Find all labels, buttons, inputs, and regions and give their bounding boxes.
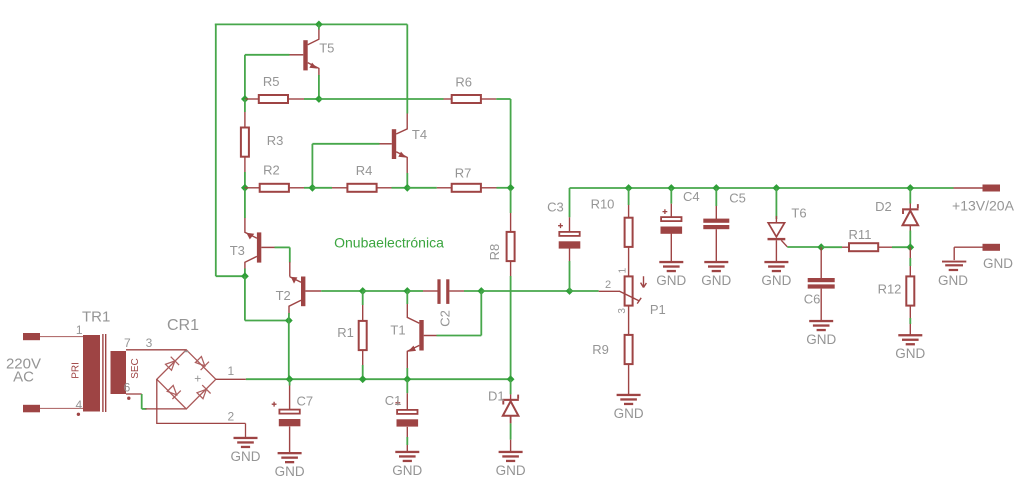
capacitor C5 bottom pin [715,229,717,261]
wire T5 base net vertical [244,55,246,99]
wire T1 collector net [406,291,408,304]
resistor R6 right pin [481,98,496,100]
capacitor C1 bottom pin [406,427,408,437]
svg-text:R8: R8 [487,244,502,261]
capacitor C5 [703,219,729,230]
wire R6 to corner [496,98,510,100]
svg-text:T6: T6 [791,205,806,220]
junction T1 collector / C2 [403,287,411,295]
wire T6 gate net [787,246,821,248]
resistor R1 bottom pin [362,350,364,365]
svg-text:GND: GND [392,463,422,478]
wire TR1 pin7 to bridge [126,349,186,351]
resistor R7 left pin [437,187,452,189]
capacitor C3 bottom pin [569,248,571,261]
resistor R3 [241,128,249,157]
junction top rail / T5 collector [315,21,323,29]
junction T2 collector node [285,317,293,325]
svg-text:C4: C4 [683,189,700,204]
wire T4 base vertical [311,144,313,188]
capacitor C3 top pin [569,217,571,231]
junction rail / C5 [712,184,720,192]
wire R8 top net [510,190,512,214]
resistor R11 right pin [878,246,892,248]
capacitor C6 top pin [820,247,822,278]
ground under D1 [499,451,523,462]
resistor R3 bottom pin [244,157,246,172]
svg-text:6: 6 [124,381,131,395]
transistor T2 [289,277,321,314]
resistor R6 [452,95,481,103]
bridge rectifier CR1 diamond [157,350,216,409]
ground under R9 [617,394,641,405]
wire T2 collector stub [288,313,290,321]
wire node to R4 [312,187,332,189]
bridge CR1 diode lower-left [167,385,181,399]
ground under CR1 [234,437,258,448]
ground under R12 [898,334,922,345]
wire T3 node down [244,276,246,320]
resistor R5 right pin [288,98,304,100]
junction rail / C4 [667,184,675,192]
resistor R12 top pin 2 [909,266,911,276]
wire R3 to R2 node [244,172,246,188]
capacitor C6 [808,278,835,289]
wire bottom rail [246,378,511,380]
svg-text:2: 2 [228,410,235,424]
wire to bridge bottom [142,408,147,410]
svg-text:CR1: CR1 [167,317,199,334]
resistor R10 [625,218,633,247]
junction bottom rail / R1 [359,375,367,383]
svg-text:T3: T3 [230,243,245,258]
bridge CR1 diode upper-right [195,357,209,371]
wire to T3 collector node [216,275,245,277]
svg-text:SEC: SEC [130,358,141,379]
ground under C7 [278,452,302,463]
svg-text:GND: GND [231,449,261,464]
ground under C4 [659,261,683,272]
resistor R10 top pin [628,205,630,218]
junction D2 / R11 / R12 [906,243,914,251]
wire TR1 pin6 [126,393,142,395]
wire C5 top net [715,188,717,206]
wire R5 to T5 emitter node [304,98,319,100]
svg-text:D1: D1 [488,389,505,404]
svg-text:GND: GND [496,463,526,478]
svg-text:AC: AC [13,369,34,386]
resistor R8 top pin [510,213,512,232]
transformer TR1 secondary phase dot [127,397,130,400]
diode D1 cathode pin [510,394,512,400]
wire T5 base net [245,54,290,56]
wire R5 node down [244,99,246,112]
junction node R5 left [241,95,249,103]
wire T3 base net [275,246,290,248]
wire T2 collector to bottom rail [288,321,290,380]
transistor T2 emitter pin [289,262,291,277]
wire T4 base net [312,143,379,145]
svg-text:C7: C7 [296,394,313,409]
wire R2 node to T3 emitter [244,190,246,219]
wire bridge pin 2 horizontal [156,422,245,424]
svg-text:PRI: PRI [71,362,82,379]
ground right [942,261,966,272]
svg-text:GND: GND [761,273,791,288]
transformer TR1 primary winding [83,335,100,412]
zener diode D2 [902,204,919,225]
resistor R4 right pin [377,187,392,189]
junction gate net / C6 [817,243,825,251]
wire R10 top net [628,188,630,205]
junction bottom rail / R8 / D1 [507,375,515,383]
svg-text:C3: C3 [547,199,564,214]
capacitor C7 top pin [289,386,291,410]
resistor R7 right pin [481,187,497,189]
junction C2 / T1 base [477,287,485,295]
wire rail to C3 [569,188,571,217]
wire R12 bottom net [909,318,911,324]
ground under C1 [395,451,419,462]
wire rail to D2 [909,188,911,204]
capacitor C4 bottom pin [670,234,672,262]
wire output net to P1 wiper [570,290,599,292]
transistor T5 [290,29,319,76]
transformer TR1 core [103,334,106,412]
svg-text:R6: R6 [455,74,472,89]
wire node to R7 [407,187,437,189]
wire D2 to R12 node [909,231,911,245]
wire pad to TR1 pin 1 [40,336,83,338]
svg-text:GND: GND [275,464,305,479]
svg-text:1: 1 [76,323,83,337]
capacitor C4 top pin [670,204,672,217]
resistor R5 left pin [245,98,259,100]
thyristor T6 anode pin [775,216,777,223]
capacitor C5 top pin [715,206,717,219]
wire D1 bottom net [510,423,512,439]
wire T6 anode net [775,188,777,219]
wire bridge output pin 1 [216,378,246,380]
svg-text:R2: R2 [263,163,280,178]
resistor R12 top pin [909,247,911,258]
transistor T1 [407,304,436,369]
capacitor C1 ground pin [406,445,408,451]
svg-text:C2: C2 [438,310,453,327]
svg-text:R1: R1 [337,325,354,340]
svg-text:T1: T1 [390,322,405,337]
wire R4 to T4 emitter node [392,187,408,189]
resistor R5 [259,95,288,103]
wire R8 to bottom rail [510,276,512,379]
resistor R9 [625,335,633,364]
junction bottom rail / C7 [286,375,294,383]
transformer TR1 primary phase dot [77,413,80,416]
wire bridge pin 2 down [156,379,158,423]
wire R7 to R8 node [497,187,511,189]
zener diode D1 [502,395,519,416]
capacitor C1 top pin [406,393,408,409]
diode D2 anode pin [909,226,911,231]
svg-text:C6: C6 [804,291,821,306]
wire C1 top net [406,379,408,393]
diode D2 cathode pin [909,204,911,209]
wire T5 collector stub [318,24,320,29]
wire C4 top net [670,188,672,204]
wire left vertical [215,24,217,276]
svg-text:C5: C5 [729,190,746,205]
resistor R6 left pin [444,98,452,100]
bridge CR1 diode lower-right [197,385,211,399]
svg-text:3: 3 [146,336,153,350]
svg-text:GND: GND [614,406,644,421]
resistor R1 [359,321,367,350]
junction rail / D2 [906,184,914,192]
junction T3 collector node [241,272,249,280]
wire C7 top net [289,379,291,385]
terminal pad +13V [983,185,1001,192]
capacitor C4 (polarized) [661,209,683,234]
capacitor C1 (polarized) [395,400,418,426]
wire T1 base net [437,335,482,337]
wire gate net to R11 [821,246,842,248]
wire R12 top net [909,258,911,266]
wire C2 to T1 base node [464,290,481,292]
terminal pad 220V line [23,333,40,340]
wire R1 top net [362,291,364,305]
svg-text:GND: GND [656,273,686,288]
terminal pad 220V neutral [23,405,40,413]
thyristor T6 cathode pin [775,240,777,261]
junction C3 bottom / output net [566,287,574,295]
ground under C6 [809,320,833,331]
wire rail to +13V pad [954,187,983,189]
capacitor C7 (polarized) [272,402,301,427]
wire GND pad [954,246,982,248]
wire pad to TR1 pin 4 [40,407,83,409]
resistor R2 right pin [289,187,304,189]
thyristor T6 [768,223,788,247]
wire T1 base vertical to C2 node [480,291,482,336]
wire output net [363,290,408,292]
resistor R1 top pin [362,305,364,321]
capacitor C7 bottom pin [289,427,291,453]
wire bridge AC bottom pin [146,408,187,410]
transistor T4 [380,112,408,173]
transformer TR1 secondary winding [111,351,127,394]
wire T3 base to T2 emitter [289,247,291,262]
wire R5 node to R6 [319,98,444,100]
wire GND pad down [953,247,955,260]
resistor R12 [906,276,914,305]
potentiometer P1 [620,276,647,305]
wire top rail to T4 collector [406,24,408,113]
svg-text:GND: GND [895,346,925,361]
svg-text:R11: R11 [849,227,872,242]
svg-text:R7: R7 [455,165,472,180]
resistor R11 left pin [842,246,849,248]
wire bridge pin 2 to ground [245,423,247,437]
resistor R11 [849,243,878,251]
junction R2 / R4 / T4 base [309,184,317,192]
potentiometer P1 wiper pin [599,290,620,292]
svg-text:4: 4 [75,398,82,412]
junction T5 emitter / R5 / R6 net [315,95,323,103]
resistor R8 bottom pin [510,261,512,276]
wire R6 down to R7 node [510,99,512,188]
capacitor C2 [437,279,449,304]
svg-text:T2: T2 [276,288,291,303]
svg-text:GND: GND [983,256,1013,271]
svg-text:R9: R9 [592,342,609,357]
resistor R7 [452,184,481,192]
junction R2 left node [241,184,249,192]
wire R11 to D2 node [892,246,910,248]
resistor R9 bottom pin [628,364,630,394]
capacitor C2 left pin [423,290,438,292]
svg-text:T5: T5 [319,41,334,56]
svg-text:+13V/20A: +13V/20A [952,198,1015,214]
diode D1 ground pin [510,440,512,452]
junction R4 / R7 / T4 emitter [403,184,411,192]
svg-text:T4: T4 [412,127,427,142]
bridge CR1 diode upper-left [166,357,180,371]
diode D1 anode pin [510,416,512,424]
resistor R3 top pin [244,112,246,127]
junction rail / T6 [773,184,781,192]
capacitor C6 bottom pin [820,289,822,321]
resistor R2 [260,184,289,192]
svg-text:P1: P1 [650,302,666,317]
wire to T2 collector node [245,320,289,322]
junction rail / R10 [625,184,633,192]
wire +13V rail [570,187,954,189]
svg-text:R4: R4 [356,163,373,178]
wire R1 bottom net [362,365,364,379]
ground under T6 [764,261,788,272]
wire secondary to bridge AC [141,394,143,409]
terminal pad GND [983,244,1001,251]
svg-text:7: 7 [124,336,131,350]
svg-text:R12: R12 [878,282,902,297]
junction R1 top [359,287,367,295]
wire T4 emitter net [406,173,408,188]
resistor R4 [347,184,376,192]
wire output net to P1 [481,290,569,292]
resistor R10 bottom pin / P1 pin 1 [628,247,630,276]
junction bottom rail / T1 emitter / C1 [403,375,411,383]
svg-text:R10: R10 [591,196,615,211]
wire T1 emitter net [406,368,408,379]
capacitor C2 right pin [449,290,464,292]
svg-text:TR1: TR1 [82,309,110,326]
wire T3 collector net [244,269,246,277]
wire top rail [215,23,407,25]
wire output net from T2 base [321,290,363,292]
svg-text:GND: GND [701,273,731,288]
svg-text:GND: GND [938,273,968,288]
svg-text:1: 1 [618,267,629,273]
resistor R2 left pin [245,187,260,189]
wire T5 emitter net [318,75,320,99]
svg-text:D2: D2 [875,199,892,214]
resistor R12 ground pin [909,324,911,335]
wire C3 to output net [569,261,571,291]
capacitor C3 (polarized) [558,223,580,248]
wire C1 bottom net [406,437,408,445]
resistor R8 [507,232,515,261]
bridge CR1 minus mark [184,351,188,353]
svg-text:2: 2 [605,279,611,291]
svg-text:Onubaelectrónica: Onubaelectrónica [334,234,444,250]
svg-text:1: 1 [228,364,235,378]
wire R2 to R4 node [304,187,312,189]
wire D1 top net [510,379,512,394]
svg-text:R3: R3 [267,133,284,148]
wire to C2 [407,290,423,292]
ground under C5 [704,261,728,272]
svg-text:C1: C1 [385,393,402,408]
svg-text:3: 3 [617,308,628,314]
svg-text:GND: GND [806,332,836,347]
potentiometer P1 pin 3 / R9 top pin [628,306,630,335]
junction R6 / R7 / R8 [507,184,515,192]
svg-text:+: + [194,372,201,386]
resistor R12 bottom pin [909,306,911,319]
svg-text:R5: R5 [263,74,280,89]
transistor T3 [245,218,275,270]
resistor R4 left pin [332,187,347,189]
